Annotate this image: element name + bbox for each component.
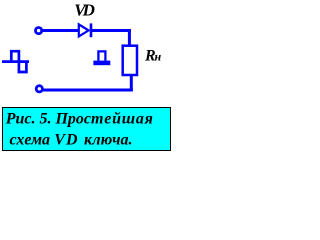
control pulse symbol (rectangular pulse on base bar) [93,51,110,65]
node IN1 (top input terminal circle) [36,28,42,34]
svg-text:Rн: Rн [144,48,161,65]
wire (diode VD cathode to top-right corner) [92,29,131,32]
wire (top terminal to diode VD anode) [42,29,79,32]
caption box (cyan highlighted, black border) [3,108,171,151]
wire (resistor Rn bottom down to bottom rail) [130,76,133,92]
resistor Rn (load) [123,46,137,75]
svg-text:VD: VD [74,0,95,19]
wire (top-right corner down to resistor Rn top) [128,29,131,46]
wire (bottom rail, bottom terminal to resistor branch) [43,89,133,92]
svg-text:схемаVDключа.: схемаVDключа. [10,132,133,149]
svg-text:Рис. 5. Простейшая: Рис. 5. Простейшая [5,110,154,127]
input square-wave signal symbol [2,51,29,72]
diode VD [79,23,91,37]
node IN2 (bottom input terminal circle) [36,86,42,92]
